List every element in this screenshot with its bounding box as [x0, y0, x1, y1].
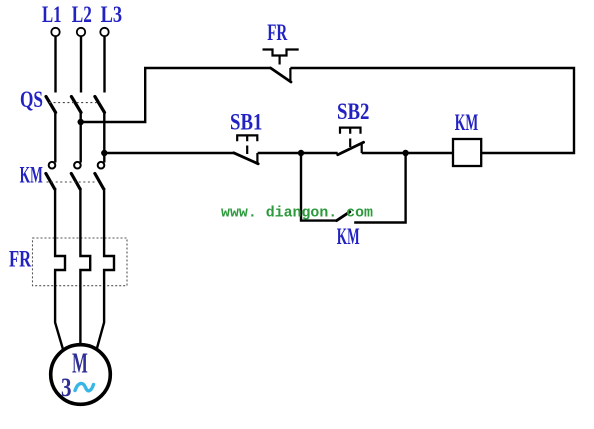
switch QS pole 1 blade: [46, 97, 56, 113]
wire latch branch left: [301, 153, 337, 221]
wire QS pole2 to KM: [79, 112, 81, 163]
button SB2 stem: [349, 139, 351, 148]
svg-text:SB2: SB2: [337, 99, 369, 124]
motor M circle: [51, 345, 111, 405]
wire L2 drop: [80, 36, 82, 92]
wire latch branch right: [354, 153, 405, 223]
wire coil to start branch: [362, 152, 453, 154]
svg-text:KM: KM: [337, 224, 360, 249]
svg-text:L1: L1: [42, 2, 62, 27]
svg-text:L3: L3: [101, 2, 123, 27]
svg-text:3: 3: [61, 373, 72, 402]
contactor KM pole1 terminal circle: [49, 162, 56, 169]
relay FR heater pole3 with wire: [97, 188, 114, 350]
junction control tap on L2 phase: [78, 119, 84, 125]
svg-text:KM: KM: [20, 163, 43, 188]
button SB1 cap: [237, 135, 257, 141]
wire QS pole1 to KM: [54, 112, 56, 163]
junction control tap on L3 phase: [101, 150, 107, 156]
button SB1 stem: [246, 146, 248, 155]
relay FR control contact blade: [271, 68, 291, 82]
relay FR heater pole2 with wire: [80, 188, 90, 345]
svg-text:SB1: SB1: [230, 110, 262, 135]
contact KM latch blade: [337, 212, 350, 221]
junction right latch node: [402, 150, 408, 156]
svg-text:L2: L2: [72, 2, 92, 27]
contactor KM pole2 terminal circle: [74, 162, 81, 169]
svg-text:www. diangon. com: www. diangon. com: [221, 204, 373, 221]
contactor KM linkage dashed: [47, 181, 98, 183]
svg-text:KM: KM: [455, 110, 479, 135]
contactor KM pole3 blade: [95, 174, 104, 190]
wire L1 drop: [54, 36, 56, 92]
coil KM box: [453, 139, 481, 166]
button SB1 blade: [234, 153, 259, 164]
junction left latch node: [298, 150, 304, 156]
wire L3 tap to SB1: [104, 152, 233, 154]
motor phase wave symbol: [75, 383, 94, 390]
relay FR heater pole1 with wire: [55, 188, 65, 350]
contactor KM pole2 blade: [71, 174, 80, 190]
wire top rail right and right side drop: [290, 68, 574, 153]
svg-text:QS: QS: [20, 87, 43, 112]
wire SB1 to SB2: [258, 152, 338, 154]
terminal L1: [51, 28, 59, 36]
switch QS pole 2 blade: [71, 97, 81, 113]
terminal L3: [100, 28, 108, 36]
contactor KM pole1 blade: [46, 174, 55, 190]
svg-text:FR: FR: [267, 20, 287, 45]
relay FR control contact right tick: [289, 68, 291, 81]
svg-text:FR: FR: [9, 247, 31, 272]
relay FR control contact stem: [279, 56, 281, 65]
wire QS pole3 to KM: [103, 112, 105, 163]
switch QS linkage dashed: [49, 102, 100, 104]
svg-text:M: M: [72, 349, 88, 380]
button SB2 blade: [338, 142, 364, 155]
relay FR dashed box: [33, 238, 128, 286]
wire control tap to top rail: [81, 68, 271, 122]
switch QS pole 3 blade: [95, 97, 105, 113]
button SB2 cap: [340, 128, 361, 134]
button SB1 right tick: [256, 153, 258, 164]
button SB2 right tick: [361, 143, 363, 153]
terminal L2: [77, 28, 85, 36]
relay FR control contact bracket: [263, 50, 299, 56]
contactor KM pole3 terminal circle: [98, 162, 105, 169]
wire L3 drop: [103, 36, 105, 92]
